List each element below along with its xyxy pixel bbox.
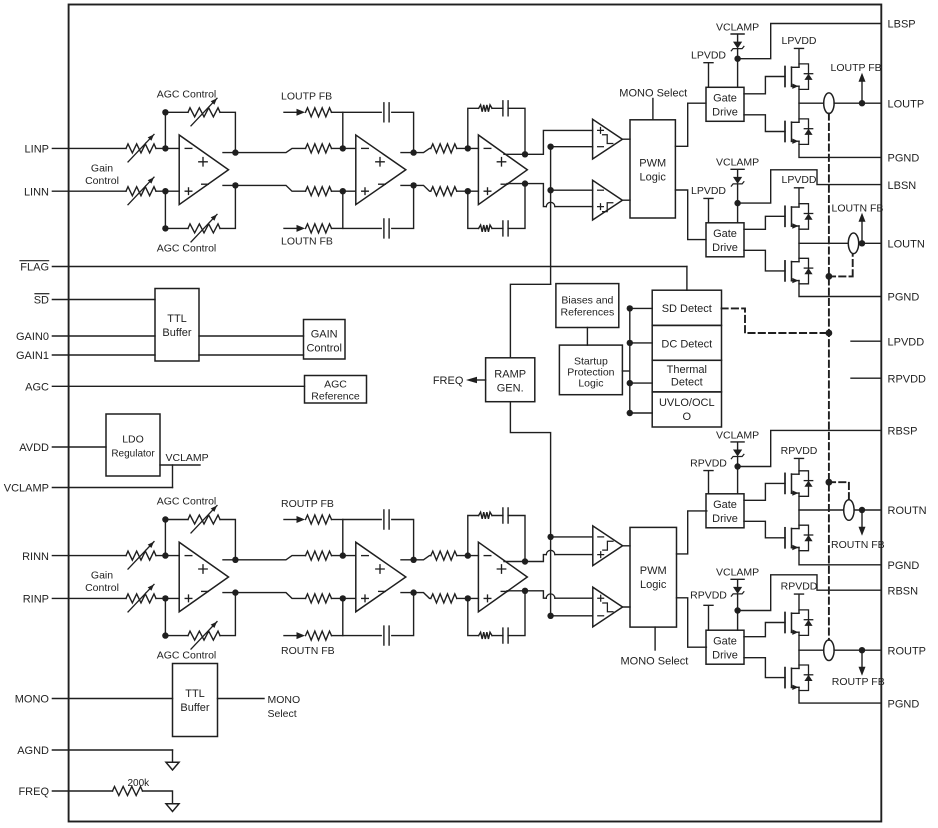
svg-text:ROUTP FB: ROUTP FB (281, 498, 334, 510)
VCLAMP clamp diode U2 (LOUTN) (716, 157, 759, 223)
capacitor R3 fb upper (503, 508, 508, 523)
svg-text:AGC Control: AGC Control (157, 243, 217, 255)
pin LBSP (888, 19, 916, 31)
svg-text:Buffer: Buffer (162, 327, 191, 339)
svg-text:SD Detect: SD Detect (662, 303, 712, 315)
arrow LOUTN FB (859, 213, 866, 222)
variable resistor gain control R upper (126, 542, 156, 570)
resistor L3 fb upper (479, 105, 492, 112)
svg-text:VCLAMP: VCLAMP (716, 429, 759, 441)
svg-text:Select: Select (268, 708, 297, 720)
wire R2 out lower (401, 593, 431, 599)
block Gate Drive U3 (ROUTN) (706, 494, 744, 528)
svg-text:PGND: PGND (888, 698, 920, 710)
node L1 out lower (232, 182, 238, 188)
block PWM Logic R (630, 527, 677, 627)
arrow ROUTN FB (297, 632, 306, 639)
wire PWM L to gate drive high (675, 103, 706, 146)
dashed branch to ROUTN loop (829, 482, 849, 500)
node L in upper (162, 145, 168, 151)
wire bootstrap U4 (ROUTP) (738, 575, 882, 611)
op-amp L1 (diff amp stage 1) (179, 135, 228, 205)
pin PGND (R low) (888, 698, 920, 710)
node ramp L lower (547, 187, 553, 193)
label LOUTN FB (832, 202, 884, 214)
wire PWM R to gate drive high (677, 511, 707, 554)
dashed SD Detect output (722, 308, 829, 333)
ground symbol AGND (166, 762, 179, 770)
VCLAMP clamp diode U1 (LOUTP) (716, 21, 759, 87)
resistor LOUTN FB (306, 224, 343, 233)
svg-text:RINN: RINN (22, 551, 49, 563)
node L3 out lower (522, 180, 528, 186)
supply stub RPVDD right U4 (ROUTP) (781, 580, 818, 613)
supply stub RPVDD left U3 (ROUTN) (690, 457, 727, 493)
node R AGC upper (162, 516, 168, 522)
svg-text:Logic: Logic (640, 171, 667, 183)
pin AVDD (19, 442, 106, 454)
svg-text:Gate: Gate (713, 499, 737, 511)
resistor 200k FREQ (113, 778, 151, 796)
sense loop ROUTN (844, 500, 854, 521)
svg-text:FREQ: FREQ (18, 786, 49, 798)
wire detect bus (630, 308, 652, 413)
svg-text:Control: Control (306, 343, 341, 355)
arrow LOUTP FB (297, 109, 306, 116)
transistor low-side U3 (ROUTN) (785, 525, 813, 551)
wire half-bridge node U3 (ROUTN) (798, 493, 800, 528)
label LOUTN FB (281, 236, 333, 248)
svg-text:LOUTP FB: LOUTP FB (281, 91, 332, 103)
pin AGND (17, 745, 172, 757)
svg-text:AGC Control: AGC Control (157, 89, 217, 101)
svg-text:Logic: Logic (578, 377, 603, 389)
supply stub LPVDD left U1 (LOUTP) (691, 50, 726, 88)
label ROUTP FB (832, 676, 885, 688)
wire L3 out lower stub (507, 183, 525, 185)
node L in lower (162, 188, 168, 194)
label MONO Select R (621, 655, 689, 667)
op-amp L2 (diff amp stage 2) (356, 135, 406, 205)
node ramp R upper (547, 534, 553, 540)
svg-text:ROUTN: ROUTN (888, 505, 927, 517)
node L2 in lower (340, 188, 346, 194)
node L2 in upper (340, 145, 346, 151)
label LOUTP FB (831, 62, 882, 74)
capacitor L2 fb upper (384, 103, 389, 122)
resistor R2 in lower (306, 594, 356, 603)
wire L2 out lower (401, 185, 431, 191)
variable resistor AGC Control R upper (188, 506, 220, 534)
wire bootstrap U2 (LOUTN) (738, 170, 882, 203)
transistor high-side U2 (LOUTN) (785, 204, 813, 230)
pin ROUTP (888, 645, 927, 657)
resistor L2 in upper (306, 144, 356, 153)
transistor high-side U3 (ROUTN) (785, 471, 813, 497)
wire L stage1 inputs (156, 148, 179, 191)
dashed branch to LOUTN loop (829, 254, 853, 276)
node L AGC upper (162, 109, 168, 115)
node detect bus UVLO (627, 410, 633, 416)
block Gate Drive U2 (LOUTN) (706, 223, 744, 257)
pin RPVDD (851, 373, 926, 385)
svg-text:DC Detect: DC Detect (661, 339, 712, 351)
variable resistor gain control L upper (126, 134, 156, 162)
arrow LOUTP FB (859, 73, 866, 82)
pin LOUTP (888, 98, 925, 110)
pin LINP (25, 144, 126, 156)
wire L AGC lower branch (165, 185, 235, 228)
pin RINN (22, 551, 126, 563)
supply stub LPVDD left U2 (LOUTN) (691, 185, 726, 223)
wire gate high U1 (LOUTP) (744, 77, 785, 94)
VCLAMP clamp diode U3 (ROUTN) (716, 429, 759, 494)
node R in upper (162, 552, 168, 558)
svg-text:Gate: Gate (713, 636, 737, 648)
svg-text:Gate: Gate (713, 93, 737, 105)
wire gate low U3 (ROUTN) (744, 521, 785, 538)
block RAMP GEN. (486, 358, 535, 402)
wire R1 out lower (223, 593, 306, 599)
svg-text:Buffer: Buffer (180, 702, 209, 714)
svg-text:VCLAMP: VCLAMP (716, 567, 759, 579)
svg-text:Drive: Drive (712, 242, 738, 254)
node R1 out lower (232, 589, 238, 595)
svg-text:RPVDD: RPVDD (781, 445, 818, 457)
label FREQ internal (433, 375, 464, 387)
pin RINP (23, 594, 126, 606)
svg-text:SD: SD (34, 295, 49, 307)
svg-text:GAIN0: GAIN0 (16, 331, 49, 343)
wire MONO select out (218, 698, 265, 700)
svg-text:RPVDD: RPVDD (690, 457, 727, 469)
svg-text:VCLAMP: VCLAMP (166, 452, 209, 464)
svg-text:LPVDD: LPVDD (781, 35, 816, 47)
svg-text:AGC: AGC (324, 379, 347, 391)
arrow FREQ (466, 377, 477, 384)
svg-text:RPVDD: RPVDD (888, 373, 927, 385)
svg-text:PGND: PGND (888, 153, 920, 165)
svg-text:RAMP: RAMP (494, 368, 526, 380)
block AGC Reference (305, 376, 367, 404)
op-amp R1 (diff amp stage 1) (179, 542, 228, 612)
wire half-bridge node U4 (ROUTP) (798, 632, 800, 668)
svg-text:Control: Control (85, 582, 119, 594)
svg-text:MONO Select: MONO Select (619, 87, 687, 99)
svg-text:LBSN: LBSN (888, 180, 917, 192)
node detect bus thermal (627, 380, 633, 386)
sense loop ROUTP (824, 640, 834, 661)
variable resistor AGC Control L upper (188, 98, 220, 126)
svg-text:PWM: PWM (639, 157, 666, 169)
svg-text:LINN: LINN (24, 186, 49, 198)
capacitor R3 fb lower (503, 628, 508, 643)
resistor R3 fb upper (479, 512, 492, 519)
pin GAIN1 (16, 350, 155, 362)
svg-text:VCLAMP: VCLAMP (716, 157, 759, 169)
svg-text:Drive: Drive (712, 513, 738, 525)
svg-text:MONO: MONO (15, 694, 50, 706)
svg-text:LINP: LINP (25, 144, 49, 156)
wire R2 fb upper (343, 520, 414, 560)
wire PWM R to gate drive low (677, 598, 707, 647)
wire L2 fb lower (343, 185, 414, 228)
block TTL Buffer (MONO) (173, 664, 218, 737)
svg-text:UVLO/OCL: UVLO/OCL (659, 397, 715, 409)
wire LOUTN FB lead (284, 227, 297, 229)
wire PWM L to gate drive low (675, 190, 706, 240)
wire half-bridge node U2 (LOUTN) (798, 226, 800, 262)
wire L AGC upper branch (165, 112, 235, 152)
transistor high-side U1 (LOUTP) (785, 64, 813, 90)
svg-text:MONO: MONO (268, 694, 301, 706)
svg-text:PWM: PWM (640, 565, 667, 577)
label VCLAMP net (166, 452, 209, 464)
wire LOUTN output (799, 242, 881, 244)
svg-text:LOUTN: LOUTN (888, 239, 925, 251)
capacitor R2 fb lower (384, 626, 389, 645)
pin PGND (L high) (888, 153, 920, 165)
VCLAMP clamp diode U4 (ROUTP) (716, 567, 759, 631)
node R2 in upper (340, 552, 346, 558)
variable resistor AGC Control L lower (188, 214, 220, 242)
block UVLO/OCLO (652, 392, 721, 427)
node R2 in lower (340, 595, 346, 601)
svg-text:ROUTN FB: ROUTN FB (281, 645, 335, 657)
block SD Detect (652, 290, 721, 325)
svg-text:LPVDD: LPVDD (888, 336, 925, 348)
node LOUTP (859, 100, 865, 106)
svg-text:Drive: Drive (712, 650, 738, 662)
label ROUTN FB (831, 539, 885, 551)
node R3 out upper (522, 558, 528, 564)
capacitor L3 fb lower (503, 221, 508, 236)
svg-text:AVDD: AVDD (19, 442, 49, 454)
block Startup Protection Logic (559, 345, 622, 395)
svg-text:200k: 200k (128, 778, 151, 789)
node R in lower (162, 595, 168, 601)
label Gain Control R (85, 570, 119, 595)
svg-text:RINP: RINP (23, 594, 49, 606)
node R1 out upper (232, 557, 238, 563)
wire L1 out lower (223, 185, 306, 191)
svg-text:LBSP: LBSP (888, 19, 916, 31)
wire hop over ramp line L (546, 202, 555, 206)
wire LOUTP output (799, 102, 881, 104)
node R3 in upper (465, 552, 471, 558)
label MONO Select L (619, 87, 687, 99)
svg-text:ROUTP: ROUTP (888, 645, 927, 657)
wire L3 fb upper (468, 108, 525, 154)
svg-text:Gain: Gain (91, 570, 113, 582)
wire PGND U1 (LOUTP) (799, 141, 881, 157)
block Thermal Detect (652, 360, 721, 392)
variable resistor AGC Control R lower (188, 622, 220, 650)
block Biases and References (556, 284, 619, 328)
node L2 out upper (410, 149, 416, 155)
pin PGND (R high) (888, 560, 920, 572)
svg-text:LDO: LDO (122, 433, 144, 445)
wire R3 out lower stub (507, 590, 525, 592)
svg-text:Reference: Reference (311, 391, 360, 403)
supply stub RPVDD right U3 (ROUTN) (781, 445, 818, 474)
resistor R3 in lower (431, 594, 479, 603)
wire R3 out upper to comparator (hop) (525, 555, 593, 562)
comparator L upper (593, 119, 623, 159)
wire L3 out lower to comparator (hop) (525, 184, 593, 207)
wire FLAG drop to SD Detect (686, 267, 688, 291)
node R AGC lower (162, 632, 168, 638)
wire LOUTP FB lead (284, 111, 297, 113)
wire bootstrap U3 (ROUTN) (738, 430, 882, 466)
label AGC Control L upper (157, 89, 217, 101)
wire L3 out upper stub (504, 153, 525, 155)
wire L2 out upper (401, 148, 431, 152)
svg-text:LPVDD: LPVDD (691, 50, 726, 62)
label LOUTP FB (281, 91, 332, 103)
transistor low-side U4 (ROUTP) (785, 665, 813, 691)
wire L2 fb upper (343, 112, 414, 152)
block LDO Regulator (106, 414, 160, 476)
resistor L3 in upper (431, 144, 479, 153)
svg-text:FLAG: FLAG (20, 262, 49, 274)
svg-text:Thermal: Thermal (667, 364, 707, 376)
wire PGND U2 (LOUTN) (799, 281, 881, 297)
svg-text:RPVDD: RPVDD (690, 589, 727, 601)
wire FREQ to ground (143, 791, 173, 804)
block PWM Logic L (630, 120, 675, 218)
node L3 in lower (465, 188, 471, 194)
wire gate low U2 (LOUTN) (744, 250, 785, 271)
node R2 out lower (410, 589, 416, 595)
wire LOUTP FB tap (861, 82, 863, 104)
wire L3 out upper to comparator (525, 130, 593, 154)
pin ROUTN (888, 505, 927, 517)
svg-text:RPVDD: RPVDD (781, 580, 818, 592)
wire gain1 to gain control (199, 354, 304, 356)
wire VCLAMP pin riser (172, 465, 174, 488)
label MONO Select out (268, 694, 301, 720)
svg-text:Drive: Drive (712, 107, 738, 119)
pin LOUTN (888, 239, 925, 251)
node L2 out lower (410, 182, 416, 188)
block TTL Buffer (SD/GAIN) (155, 289, 199, 362)
variable resistor gain control R lower (126, 584, 156, 612)
supply stub LPVDD right U1 (LOUTP) (781, 35, 816, 67)
block GAIN Control (304, 320, 346, 360)
svg-text:Control: Control (85, 175, 119, 187)
label AGC Control R upper (157, 496, 217, 508)
svg-text:LPVDD: LPVDD (691, 185, 726, 197)
pin RBSN (888, 585, 919, 597)
wire R3 out lower to comparator (hop) (525, 591, 593, 598)
svg-text:AGC Control: AGC Control (157, 650, 217, 662)
wire gain0 to gain control (199, 335, 304, 337)
wire ramp to L comparators (551, 147, 593, 285)
svg-text:MONO Select: MONO Select (621, 655, 689, 667)
transistor low-side U1 (LOUTP) (785, 119, 813, 144)
label Gain Control L (85, 162, 119, 187)
wire L3 fb lower (468, 184, 525, 229)
capacitor L2 fb lower (384, 219, 389, 238)
svg-text:VCLAMP: VCLAMP (4, 483, 49, 495)
transistor low-side U2 (LOUTN) (785, 258, 813, 284)
svg-text:LOUTP: LOUTP (888, 98, 925, 110)
wire gate high U3 (ROUTN) (744, 483, 785, 500)
node R3 out lower (522, 588, 528, 594)
variable resistor gain control L lower (126, 177, 156, 205)
pin RBSP (888, 426, 918, 438)
wire LDO VCLAMP output (160, 464, 200, 466)
arrow ROUTN FB (859, 527, 866, 536)
capacitor L3 fb upper (503, 101, 508, 116)
node detect bus SD (627, 305, 633, 311)
svg-text:AGC Control: AGC Control (157, 496, 217, 508)
resistor L3 fb lower (479, 225, 492, 232)
wire R AGC upper branch (165, 520, 235, 560)
node dashed LOUTN branch (826, 273, 833, 280)
supply stub RPVDD left U4 (ROUTP) (690, 589, 727, 630)
pin FLAG (20, 261, 687, 274)
block Gate Drive U1 (LOUTP) (706, 87, 744, 121)
wire MONO select L (652, 99, 654, 120)
wire gate high U2 (LOUTN) (744, 216, 785, 229)
wire ROUTP output (799, 649, 881, 651)
wire hop over ramp line R upper (546, 550, 555, 554)
label ROUTP FB (281, 498, 334, 510)
node L1 out upper (232, 149, 238, 155)
label AGC Control R lower (157, 650, 217, 662)
wire R3 fb lower (468, 591, 525, 636)
wire gate low U4 (ROUTP) (744, 658, 785, 678)
wire ramp to R comparators (551, 537, 593, 616)
block DC Detect (652, 325, 721, 360)
comparator R lower (593, 587, 623, 627)
svg-text:Logic: Logic (640, 579, 667, 591)
wire gate low U1 (LOUTP) (744, 115, 785, 132)
svg-text:TTL: TTL (185, 688, 205, 700)
arrow ROUTP FB (859, 667, 866, 676)
resistor L3 in lower (431, 187, 479, 196)
pin VCLAMP (4, 483, 173, 495)
block Gate Drive U4 (ROUTP) (706, 630, 744, 664)
wire R stage1 inputs (156, 556, 179, 599)
wire gate high U4 (ROUTP) (744, 623, 785, 637)
node L3 out upper (522, 151, 528, 157)
resistor ROUTP FB (306, 515, 343, 524)
svg-text:Biases and: Biases and (561, 294, 613, 306)
node dashed SD junction (826, 330, 833, 337)
node ROUTP (859, 647, 865, 653)
node L AGC lower (162, 225, 168, 231)
svg-text:ROUTP FB: ROUTP FB (832, 676, 885, 688)
svg-text:LOUTN FB: LOUTN FB (832, 202, 884, 214)
comparator L lower (593, 180, 623, 220)
node detect bus DC (627, 340, 633, 346)
wire ROUTP FB tap (861, 650, 863, 667)
wire ramp gen lower (510, 402, 550, 616)
svg-text:Detect: Detect (671, 376, 703, 388)
resistor LOUTP FB (306, 108, 343, 117)
wire L1 out upper (223, 148, 306, 152)
resistor R3 fb lower (479, 632, 492, 639)
supply stub LPVDD right U2 (LOUTN) (781, 174, 816, 207)
svg-text:AGND: AGND (17, 745, 49, 757)
node ramp L upper (547, 144, 553, 150)
wire R2 out upper (401, 556, 431, 560)
node ramp R lower (547, 613, 553, 619)
wire R3 fb upper (468, 516, 525, 562)
